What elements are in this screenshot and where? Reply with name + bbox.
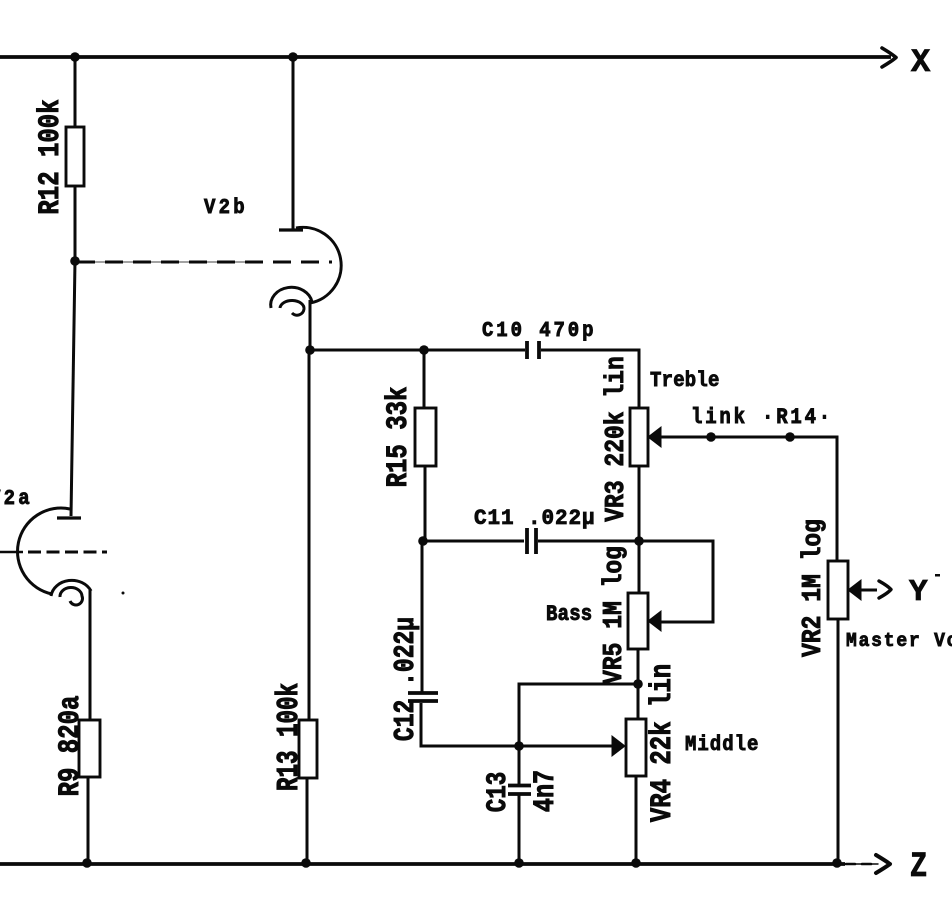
svg-text:Master Vol: Master Vol <box>846 629 952 652</box>
svg-text:Z: Z <box>910 846 927 886</box>
svg-text:V2a: V2a <box>0 486 33 510</box>
svg-text:VR4 22k lin: VR4 22k lin <box>646 664 680 822</box>
svg-text:Middle: Middle <box>685 732 759 756</box>
svg-text:C10 470p: C10 470p <box>482 318 596 342</box>
svg-text:4n7: 4n7 <box>529 770 562 812</box>
svg-text:R15 33k: R15 33k <box>382 387 416 488</box>
svg-text:Y: Y <box>909 575 928 610</box>
svg-text:C12 .022µ: C12 .022µ <box>389 617 422 741</box>
svg-text:C11 .022µ: C11 .022µ <box>474 507 595 532</box>
svg-text:C13: C13 <box>482 772 514 812</box>
svg-text:VR2 1M log: VR2 1M log <box>799 519 829 657</box>
svg-text:link ·R14·: link ·R14· <box>691 406 833 431</box>
svg-text:Treble: Treble <box>650 368 720 392</box>
svg-text:VR3 220k lin: VR3 220k lin <box>602 356 632 521</box>
svg-text:X: X <box>911 44 931 81</box>
svg-text:VR5 1M log: VR5 1M log <box>600 546 630 684</box>
svg-text:R12 100k: R12 100k <box>34 99 68 214</box>
svg-text:V2b: V2b <box>204 195 248 219</box>
svg-text:Bass: Bass <box>546 603 592 628</box>
svg-text:R13 100k: R13 100k <box>273 683 307 791</box>
svg-text:R9 820a: R9 820a <box>54 696 88 797</box>
